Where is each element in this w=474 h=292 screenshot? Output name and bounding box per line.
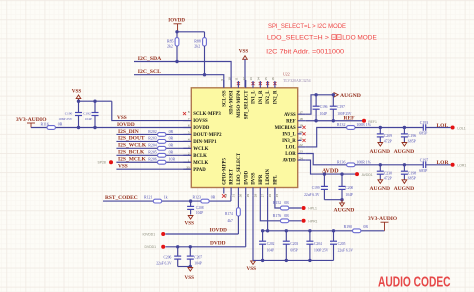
svg-text:C209: C209	[384, 134, 392, 138]
svg-text:685P: 685P	[290, 249, 297, 253]
resistor R85 2k2	[176, 32, 178, 38]
pin 28 DVSS	[252, 188, 254, 196]
svg-text:C203: C203	[290, 242, 298, 246]
svg-text:C196: C196	[408, 134, 416, 138]
svg-text:IOVDD: IOVDD	[193, 126, 210, 131]
wire to RESET pin	[230, 195, 232, 201]
pin 17 AVSS	[298, 113, 306, 115]
svg-text:LDO_SELECT=H >: LDO_SELECT=H >	[267, 35, 329, 42]
wire VSS cap rail	[79, 100, 112, 102]
net REF	[306, 120, 362, 122]
svg-text:C230: C230	[384, 171, 392, 175]
svg-text:0R: 0R	[211, 195, 216, 199]
svg-text:100R 1%: 100R 1%	[356, 160, 371, 164]
svg-text:23: 23	[299, 150, 303, 154]
pin 31 RESET	[230, 188, 232, 196]
svg-text:3V3-AUDIO: 3V3-AUDIO	[368, 216, 397, 222]
resistor R152 0R	[280, 206, 288, 210]
svg-text:C206: C206	[164, 255, 172, 259]
ground AUGND (AVDD)	[340, 203, 345, 207]
svg-text:R174: R174	[225, 212, 233, 216]
svg-text:0R: 0R	[169, 130, 174, 134]
capacitor C206 22uF 6.3V	[177, 247, 179, 256]
svg-text:104P: 104P	[345, 193, 352, 197]
svg-text:10: 10	[227, 77, 231, 81]
svg-text:21: 21	[299, 137, 303, 141]
pin 24 AVDD	[298, 159, 306, 161]
port SP28 (MCLK)	[109, 160, 113, 164]
svg-text:RST_CODEC: RST_CODEC	[105, 195, 138, 201]
svg-text:MCLK: MCLK	[193, 161, 208, 166]
svg-text:0R: 0R	[363, 225, 368, 229]
svg-text:BCLK: BCLK	[193, 154, 207, 159]
svg-text:16: 16	[271, 77, 275, 81]
svg-text:SCL·SS: SCL·SS	[222, 90, 227, 107]
svg-text:25: 25	[275, 194, 279, 198]
svg-text:GPIO·MFP5: GPIO·MFP5	[222, 158, 227, 185]
svg-text:15: 15	[264, 77, 268, 81]
svg-text:DOUT·MFP2: DOUT·MFP2	[193, 133, 222, 138]
svg-text:33: 33	[186, 165, 190, 169]
svg-text:685P: 685P	[408, 139, 417, 143]
pin 5 DOUT·MFP2	[183, 133, 191, 135]
svg-text:IN1_L: IN1_L	[252, 91, 257, 104]
pin 26 LDOIN	[267, 188, 269, 196]
svg-text:104P: 104P	[196, 211, 203, 215]
pin 12 SPI_SELECT	[245, 80, 247, 88]
svg-text:13: 13	[249, 77, 253, 81]
svg-text:R132: R132	[337, 123, 345, 127]
svg-text:I2S_DIN: I2S_DIN	[118, 129, 139, 135]
svg-text:C197: C197	[420, 159, 428, 163]
svg-text:SPI_SELECT: SPI_SELECT	[244, 90, 249, 120]
svg-text:DVDD: DVDD	[210, 241, 226, 247]
svg-text:10R: 10R	[169, 158, 176, 162]
capacitor C190 106P 25V	[78, 101, 80, 112]
port DVDD1	[161, 245, 165, 249]
svg-text:24: 24	[299, 156, 303, 160]
capacitor C199 22uF 6.3V	[323, 174, 325, 186]
svg-text:R121: R121	[144, 195, 152, 199]
svg-text:LDO_SELECT: LDO_SELECT	[237, 152, 242, 185]
svg-text:0R: 0R	[58, 122, 63, 126]
ground VSS (DVSS)	[251, 261, 256, 265]
svg-text:LOL1: LOL1	[457, 126, 465, 130]
wire VSS to IOVSS pin	[112, 101, 192, 120]
svg-text:C190: C190	[65, 112, 73, 116]
svg-text:104P: 104P	[320, 112, 327, 116]
svg-text:HPL: HPL	[274, 175, 279, 185]
port IOVDD1	[161, 232, 165, 236]
svg-text:472P: 472P	[384, 139, 393, 143]
svg-text:0R: 0R	[169, 151, 174, 155]
svg-text:0R: 0R	[284, 214, 289, 218]
svg-text:27: 27	[261, 194, 265, 198]
net IOVDD (bottom)	[165, 233, 238, 235]
svg-text:R205: R205	[148, 151, 156, 155]
pin 25 HPL	[274, 188, 276, 196]
svg-text:HPR: HPR	[259, 174, 264, 185]
svg-text:IOVSS: IOVSS	[193, 119, 208, 124]
pin 15 IN2_L	[266, 82, 269, 85]
svg-text:17: 17	[299, 110, 303, 114]
svg-text:VSS: VSS	[185, 221, 195, 227]
svg-text:IOVDD: IOVDD	[210, 228, 228, 234]
svg-text:VSS: VSS	[185, 275, 195, 281]
svg-text:I2S_WCLK: I2S_WCLK	[118, 143, 147, 149]
svg-text:IN2_L: IN2_L	[266, 91, 271, 104]
svg-text:0R: 0R	[284, 201, 289, 205]
svg-text:AVDD: AVDD	[282, 159, 296, 164]
pin 19 MICBIAS	[302, 126, 305, 129]
svg-text:SPI_SELECT=L > I2C MODE: SPI_SELECT=L > I2C MODE	[268, 23, 346, 30]
svg-text:104P: 104P	[85, 117, 92, 121]
pin 2 BCLK	[183, 154, 191, 156]
ground VSS (DVDD caps)	[188, 268, 193, 272]
capacitor C197 100P 25V	[332, 95, 334, 106]
svg-text:LOR: LOR	[437, 160, 450, 166]
svg-text:C200: C200	[345, 186, 353, 190]
capacitor C193 685P (series)	[422, 127, 424, 129]
svg-text:U22: U22	[283, 73, 290, 77]
svg-text:DVSS: DVSS	[252, 172, 257, 185]
svg-text:LOL: LOL	[437, 123, 449, 129]
ground AUGND	[402, 143, 407, 147]
wire AVDD caps to AUGND	[324, 199, 342, 201]
svg-text:DIN·MFP1: DIN·MFP1	[193, 140, 217, 145]
wire LOL chain	[306, 128, 347, 147]
pin 18 REF	[298, 120, 306, 122]
resistor R136 100R 1%	[347, 163, 355, 167]
port LOL1	[451, 126, 455, 130]
svg-text:HPL1: HPL1	[308, 207, 317, 211]
pin 1 MCLK	[183, 161, 191, 163]
svg-text:4k7: 4k7	[227, 219, 233, 223]
svg-text:DVDD1: DVDD1	[145, 245, 157, 249]
wire AVSS to AUGND rail	[306, 95, 334, 114]
svg-text:R152: R152	[273, 201, 281, 205]
svg-text:2k2: 2k2	[194, 45, 200, 49]
capacitor C198 685P	[403, 165, 405, 171]
svg-text:R85: R85	[167, 40, 174, 44]
svg-text:28: 28	[253, 194, 257, 198]
svg-text:I2C_SDA: I2C_SDA	[138, 56, 162, 62]
svg-text:18: 18	[299, 117, 303, 121]
svg-text:0R: 0R	[169, 144, 174, 148]
svg-text:HPR1: HPR1	[308, 219, 317, 223]
pin 13 IN1_L	[251, 82, 254, 85]
svg-text:19: 19	[299, 124, 303, 128]
svg-text:22uF 6.3V: 22uF 6.3V	[304, 193, 320, 197]
svg-text:472P: 472P	[384, 177, 393, 181]
svg-text:RESET: RESET	[230, 168, 235, 185]
svg-text:IN3_L: IN3_L	[282, 132, 295, 137]
svg-text:SDA·MOSI: SDA·MOSI	[230, 90, 235, 114]
svg-text:106P 25V: 106P 25V	[58, 117, 72, 121]
svg-text:DVDD: DVDD	[244, 170, 249, 184]
svg-text:IN1_R: IN1_R	[259, 90, 264, 104]
svg-text:R202: R202	[148, 130, 156, 134]
svg-text:29: 29	[246, 194, 250, 198]
wire DVSS	[252, 195, 254, 260]
pin 9 SCL·SS	[223, 80, 225, 88]
port REF1	[362, 119, 366, 123]
pin 29 DVDD	[245, 188, 247, 196]
pin 3 WCLK	[183, 147, 191, 149]
wire HPR	[260, 195, 301, 221]
svg-text:LDO MODE: LDO MODE	[342, 35, 377, 42]
port HPR1	[302, 219, 306, 223]
svg-text:104P: 104P	[267, 249, 274, 253]
svg-text:12: 12	[242, 77, 246, 81]
svg-text:22: 22	[299, 143, 303, 147]
svg-text:R116: R116	[41, 122, 49, 126]
pin 14 IN1_R	[259, 82, 262, 85]
pin 30 LDO_SELECT	[237, 188, 239, 196]
pin 23 LOR	[298, 153, 306, 155]
capacitor C197 685P (series)	[422, 164, 424, 166]
svg-text:0R: 0R	[169, 137, 174, 141]
pin 27 HPR	[259, 188, 261, 196]
capacitor C204 100P 25V	[309, 231, 311, 241]
pin 4 DIN·MFP1	[183, 140, 191, 142]
resistor R123 0R	[201, 199, 209, 203]
svg-text:AVSS: AVSS	[284, 113, 296, 118]
svg-text:C193: C193	[420, 121, 428, 125]
svg-text:C205: C205	[338, 242, 346, 246]
svg-text:685P: 685P	[419, 132, 428, 136]
svg-text:WCLK: WCLK	[193, 147, 208, 152]
capacitor C207 104P	[189, 247, 191, 256]
op-amp U1 chip body U22 TLV320AIC3254	[191, 88, 297, 188]
svg-text:IOVDD: IOVDD	[117, 122, 135, 128]
pin 11 MISO·MFP4	[237, 82, 240, 85]
svg-text:AUGND: AUGND	[394, 186, 415, 192]
svg-text:R123: R123	[193, 195, 201, 199]
svg-text:I2S_MCLK: I2S_MCLK	[118, 157, 147, 163]
capacitor C202 104P	[262, 231, 264, 241]
svg-text:1k: 1k	[164, 195, 168, 199]
svg-text:11: 11	[235, 77, 239, 81]
svg-text:VSS: VSS	[117, 115, 127, 121]
svg-text:REF: REF	[344, 115, 356, 121]
svg-text:LDOIN: LDOIN	[266, 169, 271, 185]
svg-text:R176: R176	[273, 214, 281, 218]
svg-text:AUGND: AUGND	[370, 186, 391, 192]
svg-text:C199: C199	[312, 186, 320, 190]
svg-text:2k2: 2k2	[167, 45, 173, 49]
svg-text:TLV320AIC3254: TLV320AIC3254	[283, 79, 311, 83]
ground AUGND	[378, 143, 383, 147]
port HPL1	[302, 206, 306, 210]
resistor R174 4k7	[237, 195, 239, 207]
svg-text:C198: C198	[408, 171, 416, 175]
svg-text:VSS: VSS	[239, 49, 249, 55]
resistor R176 0R	[280, 219, 288, 223]
svg-text:LOL: LOL	[286, 146, 296, 151]
capacitor C200 104P	[341, 174, 343, 186]
svg-text:PPAD: PPAD	[193, 168, 206, 173]
pin 22 LOL	[298, 146, 306, 148]
svg-text:SCLK·MFP3: SCLK·MFP3	[193, 112, 221, 117]
svg-text:685P: 685P	[408, 177, 417, 181]
svg-text:AVDD1: AVDD1	[362, 173, 373, 177]
svg-text:104P: 104P	[194, 262, 201, 266]
svg-text:C202: C202	[267, 242, 275, 246]
wire LDOIN rail	[267, 195, 269, 231]
capacitor C230 472P	[379, 165, 381, 171]
svg-text:C204: C204	[314, 242, 322, 246]
svg-text:22uF 6.3V: 22uF 6.3V	[156, 262, 172, 266]
resistor R132 100R 1%	[347, 126, 355, 130]
svg-text:AUGND: AUGND	[340, 93, 361, 99]
svg-text:31: 31	[231, 194, 235, 198]
svg-text:IOVDD1: IOVDD1	[143, 232, 156, 236]
svg-text:R203: R203	[148, 137, 156, 141]
svg-text:20: 20	[299, 130, 303, 134]
svg-text:AUGND: AUGND	[394, 149, 415, 155]
svg-text:SP28: SP28	[98, 160, 106, 164]
svg-text:MICBIAS: MICBIAS	[275, 126, 296, 131]
svg-text:VSS: VSS	[72, 88, 82, 94]
svg-text:AUGND: AUGND	[334, 207, 355, 213]
wire LOR chain	[306, 154, 347, 165]
svg-text:VSS: VSS	[118, 164, 128, 170]
svg-text:C197: C197	[337, 105, 345, 109]
svg-text:685P: 685P	[419, 169, 428, 173]
wire HPL	[275, 195, 302, 208]
svg-text:IOVDD: IOVDD	[168, 18, 185, 23]
ground AUGND	[402, 180, 407, 184]
svg-text:C208: C208	[196, 206, 204, 210]
net AVDD	[306, 160, 355, 174]
svg-text:I2S_DOUT: I2S_DOUT	[118, 136, 145, 142]
svg-text:IN3_R: IN3_R	[282, 139, 296, 144]
capacitor C196 104P	[315, 95, 317, 106]
svg-text:R190: R190	[344, 225, 352, 229]
capacitor C203 685P	[285, 231, 287, 241]
svg-text:26: 26	[268, 194, 272, 198]
svg-text:30: 30	[239, 194, 243, 198]
resistor R88 2k2	[204, 32, 206, 38]
resistor R190 0R	[353, 229, 361, 233]
wire DVDD caps to VSS	[178, 266, 191, 268]
pin 16 IN2_R	[273, 82, 276, 85]
svg-text:AUDIO CODEC: AUDIO CODEC	[378, 274, 451, 291]
pin 33 PPAD	[183, 168, 191, 170]
capacitor C209 472P	[379, 128, 381, 134]
svg-text:AUGND: AUGND	[370, 149, 391, 155]
pin 8 SCLK·MFP3	[183, 112, 186, 115]
svg-text:I2S_BCLK: I2S_BCLK	[118, 150, 145, 156]
capacitor C205 22uF 6.3V	[333, 231, 335, 241]
resistor R121 1k	[153, 199, 161, 203]
svg-text:REF: REF	[286, 119, 296, 124]
svg-text:R204: R204	[148, 144, 156, 148]
svg-text:32: 32	[224, 194, 228, 198]
wire IOVDD rail	[177, 31, 205, 33]
ground VSS (reset)	[188, 216, 193, 220]
svg-text:22uF 6.3V: 22uF 6.3V	[338, 249, 354, 253]
svg-text:R206: R206	[148, 158, 156, 162]
svg-text:R136: R136	[337, 160, 345, 164]
power AUGND (top)	[334, 93, 338, 97]
wire cap bottom rail to VSS	[253, 259, 334, 261]
svg-text:C207: C207	[194, 255, 202, 259]
svg-text:I2C 7bit Addr. =0011000: I2C 7bit Addr. =0011000	[266, 48, 345, 55]
pin 32 GPIO·MFP5	[222, 194, 226, 198]
svg-text:IN2_R: IN2_R	[274, 90, 279, 104]
svg-text:C196: C196	[320, 105, 328, 109]
pin 6 IOVDD	[183, 127, 191, 129]
pin 7 IOVSS	[183, 120, 191, 122]
capacitor C208 104P	[190, 201, 192, 206]
svg-text:14: 14	[257, 77, 261, 81]
net DVDD	[165, 246, 245, 248]
svg-text:MISO·MFP4: MISO·MFP4	[237, 90, 242, 118]
svg-text:100R 1%: 100R 1%	[356, 123, 371, 127]
svg-text:100P 25V: 100P 25V	[314, 249, 329, 253]
resistor R116 0R	[31, 127, 191, 129]
port AVDD1	[355, 172, 359, 176]
svg-text:C192: C192	[83, 112, 91, 116]
svg-text:VSS: VSS	[247, 266, 257, 272]
capacitor C192 104P	[94, 101, 96, 112]
pin 21 IN3_R	[302, 139, 305, 142]
svg-text:LOR: LOR	[285, 152, 296, 157]
port LOR1	[451, 163, 455, 167]
svg-text:LOR1: LOR1	[457, 164, 466, 168]
ground AUGND	[378, 180, 383, 184]
svg-text:R88: R88	[194, 40, 201, 44]
pin 20 IN3_L	[302, 132, 305, 135]
pin 10 SDA·MOSI	[230, 80, 232, 88]
capacitor C196 685P	[403, 128, 405, 134]
